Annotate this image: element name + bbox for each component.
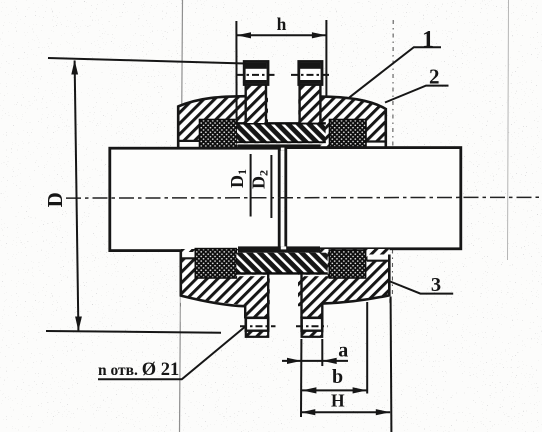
right shaft [286,148,461,249]
extension line block right edge (to b) [366,302,368,394]
bolt head right [299,62,322,85]
bottom flange arc outline left segment [181,296,245,307]
white notch bottom-right [368,255,389,261]
white line under strip [237,143,326,144]
top flange left edge [177,106,180,149]
elastic block bottom-left [195,249,236,278]
center strip (spacer ring, top) [237,123,326,143]
svg-text:2: 2 [429,65,440,89]
D2 diameter line [270,155,272,218]
svg-text:1: 1 [422,27,434,53]
left shaft [110,148,279,250]
white line under bottom strip [236,275,327,276]
svg-text:D: D [43,192,67,207]
recess white column between bolts (bottom) [270,275,298,335]
bolt nut left (bottom) [246,318,268,331]
faint dotted construction line right [391,20,394,296]
note underline and leader [98,327,245,380]
svg-text:H: H [331,391,345,411]
bolt shank left (top) hatched fill [246,83,266,123]
dimension D extension lines [48,58,245,64]
white notch top-right [368,143,386,147]
svg-text:a: a [338,340,348,362]
bolt boss edges bottom-right [300,275,302,319]
bolt nut right (bottom) [302,318,323,331]
bolt shank left (top) [244,84,246,123]
bolt boss bottom-left [245,296,268,318]
bottom flange arc outline right segment [322,295,389,303]
top flange hatched body [178,96,386,150]
extension line flange right edge (to H) [390,297,393,432]
bolt boss bottom-right [301,296,322,318]
D1 diameter line [250,154,252,217]
bottom flange right edge [388,255,391,297]
top flange outline: arc right segment [320,97,385,109]
callout 1 leader [350,47,442,97]
top flange outline: arc left segment [178,96,246,106]
callout 2 leader [385,86,449,103]
svg-text:h: h [277,14,287,34]
svg-text:b: b [332,366,343,388]
extension line bolt left edge (to a,b,H) [300,339,302,417]
white below bottom arc [181,295,389,322]
elastic block bottom-right [329,250,365,278]
dimension h line with arrows [237,34,327,36]
white notch top-left [179,142,200,148]
top flange right edge [384,108,387,147]
extension line bolt right edge (to a) [321,339,323,366]
bolt shank right (top) hatched fill [300,83,321,123]
dimension a line with outside arrows [282,360,348,362]
scan fold line right [508,0,509,260]
recess white column between bolts (top) [268,80,298,124]
bolt head left [244,62,268,85]
bolt boss edges bottom-left [244,305,246,319]
scan fold line left [180,0,183,432]
dimension H line with arrows [301,411,390,413]
elastic block top-right [330,120,367,148]
dimension h extension lines [235,21,237,122]
dimension D line with arrows [75,61,79,331]
black collar bar above bottom strip [238,246,320,252]
bolt shank right (top) [298,84,300,123]
bottom flange hatched body [181,249,390,307]
centerline of shafts [66,196,540,199]
bottom flange left edge [180,251,183,297]
black collar bar under strip [238,144,320,150]
callout 3 leader [390,282,453,294]
dimension b line with arrows [302,389,367,391]
white notch bottom-left [182,252,197,258]
center strip (spacer ring, bottom) [236,253,327,274]
svg-text:n отв. Ø 21: n отв. Ø 21 [98,360,179,380]
elastic block top-left [200,120,238,148]
svg-text:3: 3 [431,274,441,296]
